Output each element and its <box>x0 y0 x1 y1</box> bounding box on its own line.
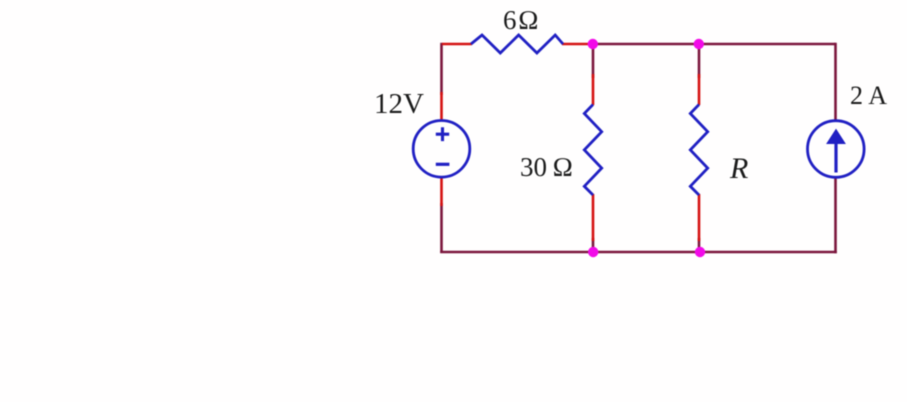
current source I1 circle <box>808 121 865 178</box>
wire right vertical bottom (I1 bottom to corner) <box>834 176 837 253</box>
node C <box>588 247 598 257</box>
lead (red) R top <box>698 74 701 105</box>
node A <box>588 39 598 49</box>
lead (red) R bottom <box>698 194 701 241</box>
wire 30ohm bottom to node C <box>592 238 595 252</box>
label 2 A <box>850 81 887 111</box>
resistor R zigzag <box>690 105 707 196</box>
lead (red) 30ohm top <box>592 74 595 105</box>
resistor R1 6 ohm zigzag <box>471 35 563 53</box>
I1 arrow head <box>827 130 845 144</box>
lead (red) R1 left <box>442 43 472 46</box>
wire right vertical top (corner to I1 top) <box>834 43 837 122</box>
label 30 ohm <box>520 152 573 183</box>
wire top rail node A to node B to right corner <box>593 43 836 46</box>
node D <box>695 247 705 257</box>
wire R bottom to node D <box>698 238 701 252</box>
I1 arrow shaft <box>834 142 837 173</box>
V1 plus sign <box>436 127 449 141</box>
resistor 30 ohm zigzag <box>584 105 601 196</box>
wire left vertical top (corner to V1 top) <box>440 43 443 95</box>
lead (red) 30ohm bottom <box>592 194 595 241</box>
wire node A down to 30ohm top <box>592 44 595 78</box>
label 6 ohm <box>503 5 540 36</box>
lead (red) R1 right to node A <box>562 43 590 46</box>
lead (red) V1 bottom <box>440 177 443 207</box>
wire node B down to R top <box>698 44 701 78</box>
voltage source V1 circle <box>413 121 470 178</box>
label 12 V <box>374 88 424 121</box>
V1 minus sign <box>436 163 450 166</box>
lead (red) V1 top <box>440 92 443 121</box>
node B <box>694 39 704 49</box>
wire bottom rail <box>440 251 837 254</box>
wire left vertical bottom (V1 bottom to corner) <box>440 203 443 253</box>
label R <box>730 152 748 186</box>
